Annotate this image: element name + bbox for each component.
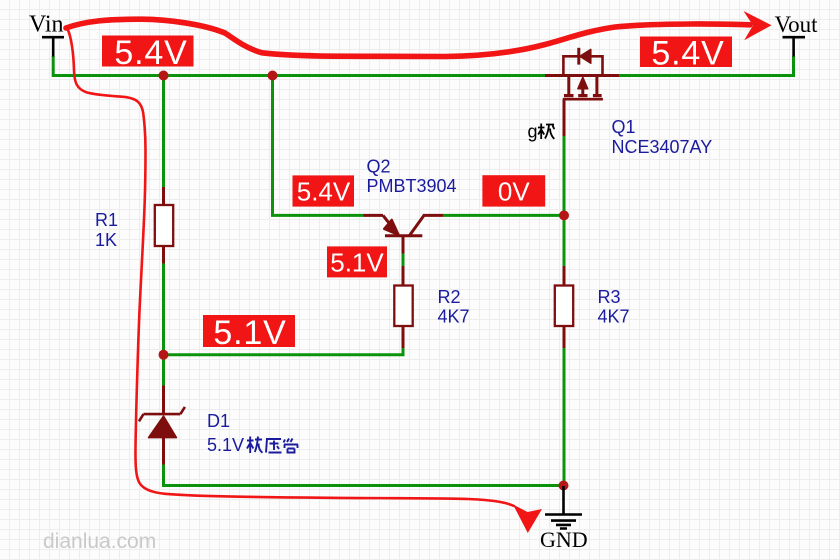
svg-text:4K7: 4K7 [438, 307, 470, 327]
voltage label 5.4V top-right [640, 35, 732, 73]
svg-text:NCE3407AY: NCE3407AY [612, 137, 713, 157]
red flow curve top Vin to Vout [66, 19, 750, 56]
junction node top-left [159, 71, 169, 81]
wire top horizontal Vin to Q1 [53, 56, 545, 76]
svg-text:5.1V: 5.1V [213, 314, 286, 352]
svg-text:Q1: Q1 [612, 117, 636, 137]
wire top horizontal Q1 to Vout [619, 56, 794, 76]
svg-text:R3: R3 [598, 287, 621, 307]
svg-text:GND: GND [540, 527, 588, 552]
svg-text:1K: 1K [95, 230, 117, 250]
junction node B gate [559, 210, 569, 220]
port Vin [29, 12, 64, 57]
wire Q2 base segment [402, 254, 405, 267]
junction node A below R1 [159, 350, 169, 360]
port Vout [775, 12, 819, 57]
junction node ground rail [559, 481, 569, 491]
label D1 5.1V稳压管 [207, 411, 298, 455]
resistor R1 [155, 187, 173, 264]
label g极 [528, 122, 555, 142]
svg-text:5.4V: 5.4V [297, 177, 351, 207]
wire node B to R3 [563, 215, 566, 266]
svg-text:Vout: Vout [775, 12, 819, 37]
svg-text:D1: D1 [207, 411, 230, 431]
svg-text:Vin: Vin [29, 12, 64, 38]
wire Q2 emitter branch [273, 76, 364, 216]
red arrowhead at GND [513, 505, 542, 534]
voltage label 5.1V at Q2 base [327, 246, 387, 277]
voltage label 5.4V at Q2 emitter [293, 175, 355, 206]
svg-text:dianlua.com: dianlua.com [43, 530, 156, 553]
svg-text:5.1V: 5.1V [330, 248, 384, 278]
svg-text:PMBT3904: PMBT3904 [367, 176, 457, 196]
zener diode D1 [139, 386, 185, 465]
svg-text:5.4V: 5.4V [651, 35, 724, 73]
wire gate to node B [563, 136, 566, 215]
svg-text:5.1V: 5.1V [207, 435, 244, 455]
svg-text:g: g [528, 122, 538, 142]
svg-text:R2: R2 [438, 287, 461, 307]
svg-text:5.4V: 5.4V [114, 34, 187, 72]
svg-text:R1: R1 [95, 210, 118, 230]
wire R1 to node A [162, 264, 165, 355]
wire Q2 collector to node B [443, 214, 564, 217]
wire R3 to ground rail [563, 348, 566, 486]
red arrowhead at Vout [744, 11, 772, 40]
junction node top-mid [268, 71, 278, 81]
ground GND [540, 486, 588, 552]
resistor R2 [394, 266, 412, 348]
resistor R3 [555, 266, 573, 348]
red feedback curve Vin to GND [68, 29, 515, 506]
transistor Q2 PMBT3904 [364, 215, 444, 253]
wire node A to D1 [162, 355, 165, 386]
svg-text:4K7: 4K7 [598, 307, 630, 327]
svg-text:0V: 0V [498, 176, 530, 206]
wire node A to R2 [164, 348, 404, 355]
wire R1 branch down [162, 76, 165, 188]
svg-text:Q2: Q2 [367, 157, 391, 177]
voltage label 5.1V big at node A [203, 314, 295, 352]
voltage label 5.4V top-left [102, 34, 194, 72]
mosfet Q1 NCE3407AY [545, 48, 619, 136]
wire D1 to bottom rail [164, 465, 564, 486]
voltage label 0V at gate [482, 175, 545, 206]
